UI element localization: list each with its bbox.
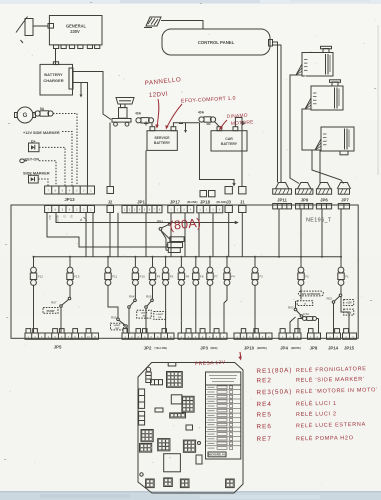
aerial socket xyxy=(144,17,161,28)
node bus junction x210 xyxy=(209,256,211,258)
wire bus drop F11 xyxy=(107,257,109,268)
fuse F11 xyxy=(105,267,111,285)
wire bus drop F5 xyxy=(165,257,167,268)
load box LIGHT 1/2 xyxy=(154,312,166,320)
PCB connector CN13 xyxy=(180,479,189,488)
pin numbers JP13 xyxy=(48,209,93,212)
svg-text:0,5A: 0,5A xyxy=(303,312,309,316)
PCB narrow connector left B xyxy=(139,411,145,425)
wire bus drop F4 xyxy=(226,257,228,268)
pin numbers JP17 xyxy=(170,209,192,212)
svg-text:+12V SIDE MARKER: +12V SIDE MARKER xyxy=(23,131,60,135)
module U2 xyxy=(305,80,343,110)
svg-text:JP18: JP18 xyxy=(200,199,211,204)
connector JP11 xyxy=(273,183,292,195)
PCB fiducial mid xyxy=(198,442,201,445)
svg-text:F13: F13 xyxy=(74,275,80,279)
svg-text:F7: F7 xyxy=(214,275,218,279)
svg-text:RE1: RE1 xyxy=(157,219,163,223)
wire bus drop F6 xyxy=(195,257,197,268)
svg-text:G: G xyxy=(23,113,28,119)
load box PUMP xyxy=(43,308,58,314)
fuse F9 xyxy=(149,267,155,285)
svg-text:LIGHT: LIGHT xyxy=(141,313,148,315)
wire F11 to relay R06 xyxy=(108,285,118,318)
diode box D+ xyxy=(29,143,40,152)
svg-text:OUT: OUT xyxy=(115,328,120,330)
svg-text:JP13: JP13 xyxy=(64,197,75,202)
load box LIGHT 3/4 xyxy=(137,310,152,318)
wire strip drop x199 xyxy=(198,213,200,257)
wire charger to JP13 xyxy=(73,83,88,187)
svg-text:12V OUTDOOR: 12V OUTDOOR xyxy=(302,292,321,296)
svg-text:F8: F8 xyxy=(186,275,190,279)
pin numbers JP4w xyxy=(282,336,299,339)
wire panel to JP11 b xyxy=(273,45,282,183)
svg-text:MICRORELAYS: MICRORELAYS xyxy=(209,454,228,457)
wire strip drop x118 xyxy=(117,213,119,257)
svg-text:RE5RELÈ LUCI 2: RE5RELÈ LUCI 2 xyxy=(256,410,336,418)
svg-text:D+: D+ xyxy=(31,140,36,144)
wire strip drop x228.7 xyxy=(228,213,230,257)
wire panel to JP11 xyxy=(273,42,278,183)
svg-text:SIDE MARKER: SIDE MARKER xyxy=(23,172,50,176)
box GENERAL 230V xyxy=(48,16,102,45)
connector J2 xyxy=(107,206,114,213)
wire F2 down xyxy=(300,285,302,299)
svg-text:F10: F10 xyxy=(140,275,146,279)
connector JP1 xyxy=(122,206,162,213)
wire JP9 drop to F2 xyxy=(300,209,302,268)
wire 5A to JP13 pin5 (dashed) xyxy=(53,114,77,187)
svg-text:JP10: JP10 xyxy=(244,346,255,351)
pin numbers JP5 xyxy=(28,336,97,339)
wire service battery to JP1 xyxy=(145,150,147,205)
relay R03 xyxy=(294,301,303,333)
red arrow PRESA xyxy=(238,352,241,361)
node bus junction x255 xyxy=(254,256,256,258)
wire service minus over to car xyxy=(173,123,199,127)
node bus junction x33.5 xyxy=(33,256,35,258)
unit NE196_T outline xyxy=(11,205,358,338)
svg-text:JP14: JP14 xyxy=(328,346,339,351)
PCB relay K2 xyxy=(171,395,182,404)
svg-text:JP15: JP15 xyxy=(344,346,355,351)
svg-text:JP11: JP11 xyxy=(277,197,287,202)
svg-text:GENERAL: GENERAL xyxy=(66,23,87,28)
fuse F1 xyxy=(338,267,344,285)
red arrow to service battery plus xyxy=(155,99,159,129)
pedestal table xyxy=(112,98,134,127)
wire bus drop F7 xyxy=(209,257,211,268)
connector JP13 xyxy=(45,206,95,213)
node bus junction x70 xyxy=(69,256,71,258)
wire car minus to J1 xyxy=(235,118,242,187)
fuse F8 xyxy=(178,267,184,285)
svg-text:CONTROL PANEL: CONTROL PANEL xyxy=(198,40,235,45)
svg-text:RED: RED xyxy=(48,215,50,220)
svg-text:-12V: -12V xyxy=(346,311,352,314)
wire strip drop x171 xyxy=(170,213,172,257)
svg-text:JP2: JP2 xyxy=(144,346,152,351)
connector JP3 red xyxy=(178,329,227,340)
connector J3 mating plug xyxy=(225,187,232,194)
red arrow DINAMO to fuse xyxy=(219,120,227,131)
svg-text:J3: J3 xyxy=(226,199,231,204)
pin numbers JP10w xyxy=(237,336,271,339)
svg-text:CAR: CAR xyxy=(225,137,233,141)
PCB microrelays bar xyxy=(208,452,226,457)
wire U1 to JP9 xyxy=(290,75,299,184)
wire fuse drop to strip x210 xyxy=(209,285,211,333)
wire JP13 pin to arrow bus xyxy=(56,213,239,225)
load box aux a xyxy=(297,301,313,306)
svg-text:F2: F2 xyxy=(305,275,309,279)
node bus junction x301 xyxy=(300,256,302,258)
wire fuse drop to strip x181.4 xyxy=(180,285,182,333)
connector J1 mating plug xyxy=(239,187,246,194)
svg-text:+12V: +12V xyxy=(346,302,352,305)
pin numbers JP14p xyxy=(329,336,338,339)
node A marker xyxy=(79,217,87,222)
load box 12V OUTDOOR xyxy=(298,291,323,296)
wire fuse drop to strip x165.6 xyxy=(165,285,167,333)
fuse F3 xyxy=(252,267,258,285)
ground tap mid xyxy=(184,123,187,133)
wire bus drop F10 xyxy=(134,257,136,268)
svg-text:F6: F6 xyxy=(200,275,204,279)
svg-text:R02: R02 xyxy=(327,296,333,300)
pin numbers JP15p xyxy=(345,336,354,339)
node bus junction x135.4 xyxy=(134,256,136,258)
node bus junction x279 xyxy=(278,256,280,258)
svg-text:(WHITE): (WHITE) xyxy=(291,347,301,350)
svg-text:F11: F11 xyxy=(112,275,117,279)
svg-text:12DVI: 12DVI xyxy=(149,91,169,99)
PCB connector CN2 xyxy=(167,372,183,388)
pin numbers JP8p xyxy=(310,336,318,339)
wire fuse to service battery xyxy=(151,123,153,127)
connector JP17 xyxy=(168,206,194,213)
fuse F4 xyxy=(224,267,230,285)
connector JP15 xyxy=(343,329,357,340)
wire bus drop F12 xyxy=(33,257,35,268)
aux box -12V lower xyxy=(344,309,354,315)
wire U2 to JP6 xyxy=(302,109,320,184)
connector JP7 base xyxy=(338,204,349,209)
PCB top edge block xyxy=(168,363,176,367)
wire charger to pedestal xyxy=(73,72,112,120)
fuse 0,5A xyxy=(298,317,319,334)
fuse 40A service xyxy=(136,118,154,123)
svg-text:RE4RELÈ LUCI 1: RE4RELÈ LUCI 1 xyxy=(256,400,336,408)
svg-text:230V: 230V xyxy=(70,29,80,34)
svg-text:J1: J1 xyxy=(240,199,245,204)
svg-text:R07: R07 xyxy=(51,301,57,305)
wire aerial to panel xyxy=(161,21,203,30)
pin numbers JP1 xyxy=(124,209,161,212)
relay RE1 aux boxes xyxy=(161,230,184,252)
connector J3 xyxy=(225,206,232,213)
battery CAR BATTERY xyxy=(207,121,248,151)
connector JP6 base xyxy=(316,204,331,209)
svg-text:F4: F4 xyxy=(231,275,235,279)
PCB connector CN11 xyxy=(146,479,155,488)
PCB relay K1 xyxy=(164,454,181,472)
svg-text:JP17: JP17 xyxy=(170,199,181,204)
PCB connector CN5 xyxy=(170,413,186,418)
wire strip drop x185 xyxy=(184,213,186,257)
node bus junction x165.6 xyxy=(165,256,167,258)
relay RE1 xyxy=(159,223,170,230)
fuse F2 xyxy=(298,267,304,285)
relay R02 xyxy=(332,294,342,333)
wire bus drop F13 xyxy=(69,257,71,268)
connector JP9 base xyxy=(296,204,313,209)
svg-text:JP8: JP8 xyxy=(310,346,318,351)
svg-text:BATTERY: BATTERY xyxy=(221,142,238,146)
wire bus drop F8 xyxy=(180,257,182,268)
svg-text:JP9: JP9 xyxy=(301,197,309,202)
svg-text:(RED): (RED) xyxy=(211,347,218,350)
wire F10 to relay R04 xyxy=(134,285,136,299)
svg-text:F5: F5 xyxy=(170,275,174,279)
svg-text:BATTERY: BATTERY xyxy=(154,141,171,145)
relay R07 xyxy=(60,297,71,333)
wire strip drop x110 xyxy=(109,213,111,257)
connector J2 mating plug xyxy=(107,187,114,194)
connector JP9 xyxy=(296,183,313,195)
PCB connector CN8 xyxy=(158,439,170,451)
aux box +12V upper xyxy=(344,300,354,306)
box CONTROL PANEL xyxy=(162,29,273,55)
PCB small part c xyxy=(186,425,193,430)
wire JP11 drop xyxy=(278,209,280,257)
fuse F13 xyxy=(67,267,73,285)
wire R02 to JP15 xyxy=(341,297,349,334)
side marker box xyxy=(29,175,39,183)
svg-text:R04: R04 xyxy=(129,295,135,299)
connector JP11 base xyxy=(273,204,292,209)
wire bus drop F3 xyxy=(254,257,256,268)
pin numbers JP2y xyxy=(125,336,173,339)
fuse F10 xyxy=(132,267,138,285)
wire fuse drop to strip x195.8 xyxy=(195,285,197,333)
svg-text:LIGHT: LIGHT xyxy=(156,314,163,316)
bottom scan band xyxy=(0,492,381,500)
tabs of GENERAL 230V xyxy=(54,45,100,49)
svg-text:F9: F9 xyxy=(157,275,161,279)
svg-text:JP5: JP5 xyxy=(54,345,62,350)
svg-text:F1: F1 xyxy=(345,275,349,279)
wire R03 branch to JP4 xyxy=(290,317,296,333)
wire F3 to JP10 xyxy=(254,285,256,333)
PCB fuse puller xyxy=(146,367,151,382)
svg-text:PUMP: PUMP xyxy=(47,309,55,313)
PCB fusebox outline xyxy=(138,363,243,494)
connector JP2 yellow xyxy=(122,329,174,340)
connector JP14 xyxy=(327,329,341,340)
svg-text:(WHITE): (WHITE) xyxy=(257,347,267,350)
wire tags under JP13 xyxy=(48,215,73,222)
connector JP8 xyxy=(308,329,321,340)
connector JP18 xyxy=(197,206,223,213)
svg-text:5A: 5A xyxy=(40,107,45,111)
svg-text:AS: AS xyxy=(70,215,73,219)
connector JP7 xyxy=(337,183,350,195)
wire car fuse to J3 xyxy=(200,123,236,187)
connector J1 xyxy=(239,206,246,213)
PCB narrow connector left A xyxy=(139,389,145,408)
PCB legend table xyxy=(206,372,241,459)
wire D+ to JP13 pin3 (dashed) xyxy=(39,147,65,186)
PCB small part b xyxy=(196,455,202,464)
pin numbers JP3r xyxy=(181,336,225,339)
PCB connector CN6 xyxy=(141,430,153,442)
svg-text:R06: R06 xyxy=(111,315,117,319)
fuse F5 xyxy=(162,267,168,285)
red arrow EFOY to battery xyxy=(165,104,182,130)
module U3 xyxy=(315,127,354,155)
connector JP13 mating plug xyxy=(45,186,95,194)
svg-text:R03: R03 xyxy=(288,306,294,310)
svg-text:NE196_T: NE196_T xyxy=(306,217,332,223)
svg-text:BATTERY: BATTERY xyxy=(44,72,63,77)
svg-text:SERVICE: SERVICE xyxy=(154,136,170,140)
wire JP6 drop xyxy=(321,209,323,257)
battery SERVICE BATTERY xyxy=(144,122,183,151)
wire JP13 staircase A xyxy=(47,213,168,247)
wire bus drop F9 xyxy=(152,257,154,268)
connector JP4 white xyxy=(279,329,301,340)
relay R05 xyxy=(145,299,154,333)
mains plug P230 xyxy=(16,17,33,44)
pin numbers JP13 mating xyxy=(48,189,93,192)
node bus junction x195.8 xyxy=(195,256,197,258)
connector JP10 white xyxy=(234,329,272,340)
wire JP7 drop to F1 xyxy=(340,209,342,268)
wire F1 down xyxy=(340,285,342,294)
wire strip drop x242.3 xyxy=(241,213,243,257)
node bus junction x181.4 xyxy=(180,256,182,258)
wire fuse to car plus xyxy=(215,122,220,127)
PCB fiducial bottom-left xyxy=(140,473,143,476)
fuse F12 xyxy=(30,267,36,285)
svg-text:J2: J2 xyxy=(108,199,113,204)
svg-text:JP7: JP7 xyxy=(341,197,349,202)
node bus junction x227 xyxy=(226,256,228,258)
wire pedestal to J2 xyxy=(109,123,111,187)
node bus junction x322 xyxy=(321,256,323,258)
PCB legend header lines xyxy=(209,376,237,382)
PCB connector CN9 xyxy=(140,444,152,453)
wire side marker to JP13 pin1 (dashed) xyxy=(38,179,48,186)
PCB small part d xyxy=(155,408,163,412)
fuse 40A car xyxy=(199,117,216,122)
svg-text:LIGHT: LIGHT xyxy=(114,325,121,327)
wire strip drop x93 xyxy=(92,213,94,257)
svg-text:(YELLOW): (YELLOW) xyxy=(155,347,168,350)
svg-text:NEGR: NEGR xyxy=(56,215,58,222)
PCB connector CN4 xyxy=(182,396,194,412)
connector JP6 xyxy=(316,183,331,195)
svg-text:KEY-ON: KEY-ON xyxy=(25,158,40,162)
wire key-on to JP13 pin2 (dashed) xyxy=(39,161,56,186)
key-on connector xyxy=(20,159,27,163)
fuse 5A xyxy=(35,111,53,116)
PCB connector CN15 xyxy=(226,479,235,488)
module U1 xyxy=(296,46,333,76)
wire F12 to JP5 xyxy=(33,285,35,333)
svg-text:40A: 40A xyxy=(198,111,205,115)
svg-text:JP3: JP3 xyxy=(200,346,208,351)
connector JP18 aux cell B xyxy=(209,191,216,197)
wire F13 to relay R07 xyxy=(69,285,71,297)
PCB label strip top-left xyxy=(151,380,163,385)
fuse F6 xyxy=(193,267,199,285)
svg-text:(BLANK): (BLANK) xyxy=(187,201,198,204)
fuse F7 xyxy=(207,267,213,285)
PCB connector CN12 xyxy=(164,478,173,487)
wire U3 to JP7 xyxy=(312,150,344,184)
wire strip drop x146 xyxy=(145,213,147,257)
wire F4 to JP3 xyxy=(224,285,227,333)
relay R04 xyxy=(128,299,137,333)
wire general to charger xyxy=(55,49,57,65)
connector JP5 xyxy=(25,329,99,340)
top scan band xyxy=(0,0,381,4)
ground tap node xyxy=(80,83,83,98)
connector JP18 aux cell A xyxy=(200,191,207,197)
svg-text:JP4: JP4 xyxy=(280,346,288,351)
load box LIGHT OUT xyxy=(111,323,124,330)
box BATTERY CHARGER xyxy=(40,62,73,95)
svg-text:R05: R05 xyxy=(146,295,152,299)
svg-text:CHARGER: CHARGER xyxy=(43,78,63,83)
generator G xyxy=(15,107,36,123)
wire strip drop x86 xyxy=(85,213,87,257)
wire strip drop x213 xyxy=(212,213,214,257)
wire +12V side marker to JP13 pin4 (dashed) xyxy=(62,132,72,187)
power bus wire xyxy=(34,256,342,258)
svg-text:F12: F12 xyxy=(38,275,44,279)
node bus junction x152.5 xyxy=(152,256,154,258)
wire F9 to relay R05 xyxy=(152,285,154,299)
wire plug to general xyxy=(33,25,48,27)
PCB connector CN10 xyxy=(183,440,195,452)
svg-text:JP6: JP6 xyxy=(320,197,328,202)
node bus junction x108 xyxy=(107,256,109,258)
right edge scan streak xyxy=(378,25,379,175)
svg-text:F3: F3 xyxy=(259,275,263,279)
relay R06 xyxy=(117,318,128,333)
pin numbers JP18 xyxy=(199,209,221,212)
node bus junction x341 xyxy=(340,256,342,258)
svg-text:JP1: JP1 xyxy=(137,199,145,204)
